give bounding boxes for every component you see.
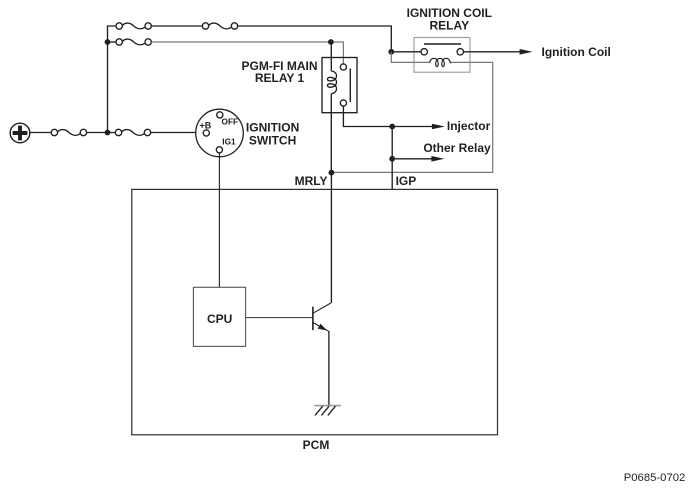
wire ignition coil relay coil return [331,62,492,172]
wire to other relay arrow [392,158,431,160]
fuse (top bus 1) [116,23,151,29]
svg-text:Ignition Coil: Ignition Coil [542,45,611,59]
fuse (top bus 2) [202,23,237,29]
label Injector [447,119,491,133]
arrow to Other Relay [431,156,444,162]
relay box PGM-FI main relay [322,58,357,113]
junction dot other relay branch [389,156,395,162]
label Ignition Coil [542,45,611,59]
fuse (battery feed 1) [51,129,86,135]
PCM box [132,189,498,434]
svg-text:+B: +B [200,120,212,130]
fuse (second bus) [116,39,151,45]
junction dot MRLY [329,170,335,176]
junction dot main relay coil tap [328,39,334,45]
wire top bus to ignition coil relay [238,26,392,50]
svg-text:IGP: IGP [396,174,417,188]
wire MRLY into PCM [330,170,332,303]
label CPU [207,312,232,326]
label IGP [396,174,417,188]
svg-text:RELAY: RELAY [430,18,470,32]
label PGM-FI MAIN RELAY 1 [242,59,318,85]
transistor Q (MRLY driver) [313,303,331,331]
ground [314,406,341,416]
junction dot injector branch [389,124,395,130]
wire and coil of main relay [327,42,336,170]
svg-text:Injector: Injector [447,119,491,133]
main relay contact [340,64,350,106]
wire fuse to ignition switch [151,132,204,134]
wire ignition coil relay output [464,51,522,53]
arrow to Ignition Coil [520,49,533,55]
wire left vertical riser [108,26,116,133]
svg-text:MRLY: MRLY [295,174,328,188]
wire main relay contact to injector line [343,106,389,126]
wire second bus to main relay [151,42,343,64]
wire injector branch down [391,127,393,190]
junction dot ignition coil relay input [388,49,394,55]
svg-text:OFF: OFF [222,117,239,127]
battery positive terminal [10,123,30,143]
wire to injector arrow [392,126,432,128]
wire emitter to ground [328,331,330,405]
junction dot battery line [105,130,111,136]
junction dot second bus left [105,39,111,45]
part number [624,472,686,484]
svg-text:CPU: CPU [207,312,232,326]
wire battery to fuse [30,132,51,134]
svg-text:SWITCH: SWITCH [249,133,296,147]
CPU box [193,287,245,346]
wire top bus middle [151,25,203,27]
svg-text:IGNITION: IGNITION [246,120,299,134]
wire relay input down to coil [391,52,429,63]
ignition coil relay contact [421,44,463,55]
svg-text:PCM: PCM [303,438,330,452]
wire second bus start [110,41,116,43]
svg-text:RELAY 1: RELAY 1 [255,71,305,85]
label IGNITION SWITCH [246,120,299,147]
svg-text:Other Relay: Other Relay [423,141,491,155]
ignition coil relay coil [430,58,453,66]
wire CPU to transistor base [246,317,313,319]
fuse (battery feed 2) [115,129,150,135]
wire relay input to contact [394,51,421,53]
label MRLY [295,174,328,188]
arrow to Injector [432,124,445,130]
wire IG1 to CPU [218,153,220,287]
svg-text:IG1: IG1 [222,136,236,146]
svg-text:P0685-0702: P0685-0702 [624,472,686,484]
relay box ignition coil relay [414,38,470,73]
label PCM [303,438,330,452]
label IGNITION COIL RELAY [407,6,492,32]
ignition switch [196,109,244,157]
label Other Relay [423,141,491,155]
wire fuse to junction [87,132,115,134]
